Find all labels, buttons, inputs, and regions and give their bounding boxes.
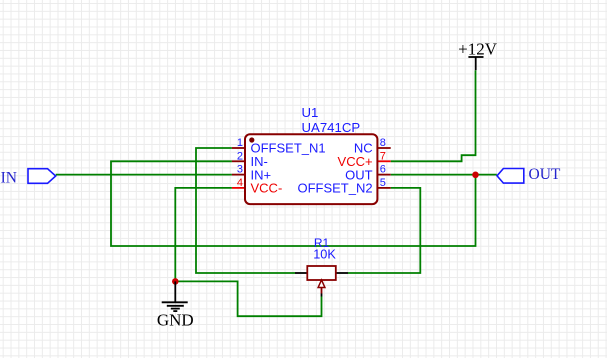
svg-text:OFFSET_N2: OFFSET_N2 <box>297 181 372 196</box>
svg-text:2: 2 <box>237 150 243 162</box>
svg-text:6: 6 <box>380 164 386 176</box>
svg-text:3: 3 <box>237 164 243 176</box>
svg-text:U1: U1 <box>302 105 319 120</box>
svg-text:UA741CP: UA741CP <box>302 120 361 135</box>
svg-text:7: 7 <box>380 150 386 162</box>
svg-text:OUT: OUT <box>529 166 561 183</box>
svg-text:VCC-: VCC- <box>251 181 283 196</box>
svg-text:4: 4 <box>237 177 243 189</box>
svg-text:IN: IN <box>1 170 17 187</box>
svg-text:5: 5 <box>380 177 386 189</box>
svg-text:1: 1 <box>237 137 243 149</box>
svg-text:8: 8 <box>380 137 386 149</box>
svg-text:10K: 10K <box>313 248 336 262</box>
svg-text:+12V: +12V <box>458 40 498 59</box>
svg-text:GND: GND <box>157 310 194 329</box>
